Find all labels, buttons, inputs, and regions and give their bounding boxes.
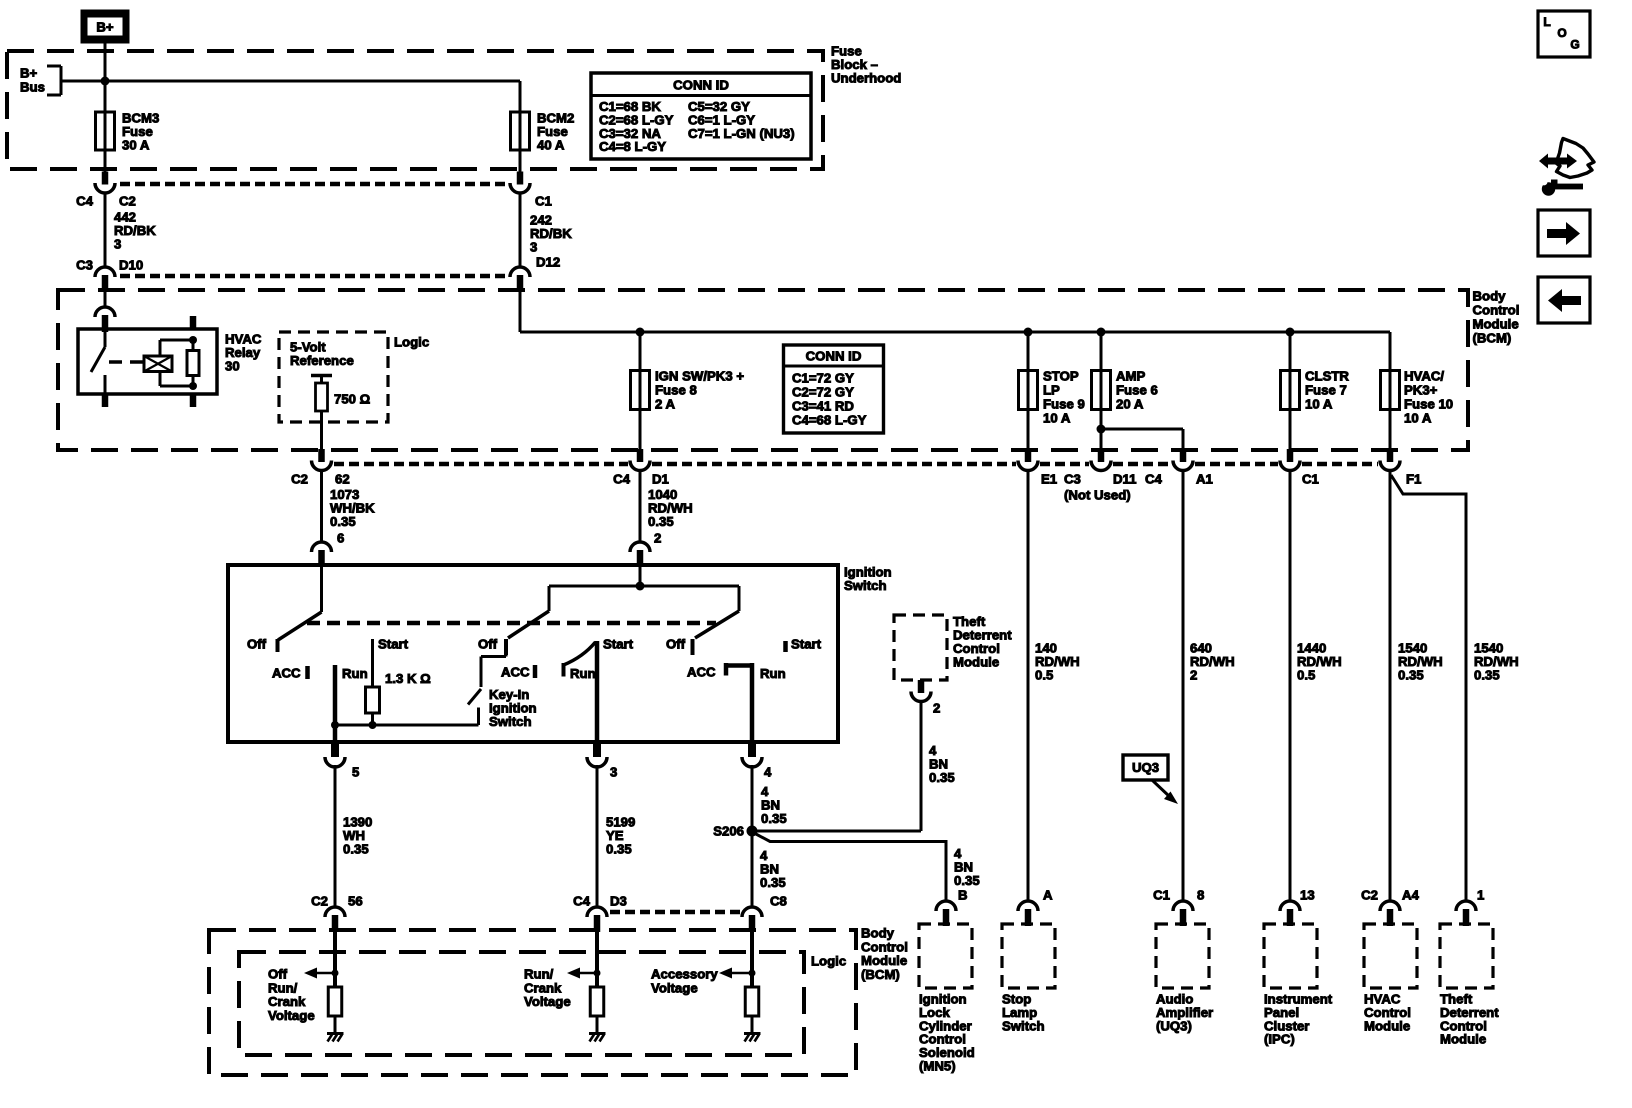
svg-text:STOP: STOP	[1043, 369, 1079, 384]
wire bus to stop fuse	[1027, 332, 1030, 371]
svg-text:40 A: 40 A	[537, 138, 565, 153]
svg-text:Crank: Crank	[524, 980, 562, 995]
ign switch acc gang run bar	[333, 665, 338, 725]
connector ign switch pin 6	[312, 542, 332, 567]
svg-text:Module: Module	[1364, 1018, 1410, 1033]
svg-text:LP: LP	[1043, 383, 1060, 398]
svg-text:1: 1	[1477, 888, 1484, 903]
node ign feed	[636, 582, 645, 591]
conn id table fuse block	[591, 73, 811, 159]
wire 1040 label	[648, 487, 693, 546]
wire 5199 label	[606, 815, 635, 857]
inline connector dotted line top	[120, 182, 506, 187]
svg-text:B: B	[958, 888, 968, 903]
svg-text:Accessory: Accessory	[651, 967, 718, 982]
off run crank voltage label	[268, 967, 315, 1023]
svg-text:D1: D1	[652, 472, 669, 487]
wire 4 BN lower label	[760, 848, 786, 890]
ign switch main gang run curve	[564, 642, 596, 665]
connector C4/D1 labels	[613, 472, 669, 487]
svg-text:IGN SW/PK3 +: IGN SW/PK3 +	[655, 369, 744, 384]
svg-text:Start: Start	[791, 637, 822, 652]
connector ign switch pin 2	[630, 542, 650, 567]
node amp branch	[1097, 425, 1106, 434]
svg-text:30 A: 30 A	[122, 138, 150, 153]
connector A1	[1173, 449, 1193, 471]
svg-text:(Not Used): (Not Used)	[1064, 488, 1131, 503]
wire 4 BN upper	[751, 765, 754, 831]
wire 1440 label	[1297, 641, 1342, 683]
svg-text:ACC: ACC	[501, 665, 530, 680]
audio amplifier box	[1156, 924, 1209, 988]
connector ign output 4	[742, 742, 762, 767]
svg-text:Module: Module	[861, 953, 907, 968]
svg-text:Run: Run	[570, 666, 596, 681]
svg-text:F1: F1	[1406, 472, 1421, 487]
svg-text:C4: C4	[76, 194, 94, 209]
ground accessory voltage	[744, 1034, 761, 1042]
connector C2/62	[312, 449, 332, 471]
wire 1390 WH	[334, 765, 337, 908]
ign switch main gang off label	[478, 637, 498, 652]
svg-text:0.35: 0.35	[761, 811, 787, 826]
ignition lock cylinder label	[919, 992, 975, 1074]
svg-text:Control: Control	[1473, 303, 1520, 318]
svg-text:Run/: Run/	[524, 967, 554, 982]
bcm bottom dotted line 6	[1302, 462, 1378, 467]
wire theft deterrent label	[929, 743, 955, 785]
svg-text:Start: Start	[378, 637, 409, 652]
icon tools	[1539, 139, 1594, 196]
node jumper resistor	[369, 721, 377, 729]
callout UQ3	[1123, 755, 1178, 804]
wire run crank voltage to ground	[596, 1016, 599, 1033]
ign switch acc gang acc contact	[272, 666, 308, 681]
wire 4 BN upper label	[761, 784, 787, 826]
logic label bottom	[811, 954, 846, 969]
resistor accessory voltage	[745, 987, 759, 1016]
wire 1540 hvac label	[1398, 641, 1443, 683]
ign switch acc2 gang pivot	[738, 586, 741, 611]
svg-text:C4: C4	[613, 472, 631, 487]
bcm bottom dotted line 5	[1195, 462, 1278, 467]
connector C2/56	[325, 907, 345, 932]
svg-text:D3: D3	[610, 894, 627, 909]
node B+ bus / BCM3	[101, 77, 110, 86]
svg-text:C4: C4	[573, 894, 591, 909]
body control module label	[1473, 289, 1520, 346]
svg-text:C2: C2	[291, 472, 308, 487]
wire S206 branch label	[954, 846, 980, 888]
svg-text:HVAC/: HVAC/	[1404, 369, 1444, 384]
svg-text:0.35: 0.35	[330, 514, 356, 529]
svg-text:Fuse 6: Fuse 6	[1116, 383, 1158, 398]
wire D12 pin down into BCM	[519, 288, 522, 332]
svg-text:Voltage: Voltage	[651, 980, 698, 995]
fuse 8 label	[655, 369, 744, 412]
svg-text:Module: Module	[1473, 317, 1519, 332]
ignition switch box	[228, 565, 838, 742]
fuse HVAC/PK3 10 10A	[1381, 370, 1400, 411]
svg-text:5: 5	[352, 765, 359, 780]
svg-text:(MN5): (MN5)	[919, 1059, 956, 1074]
wire bus to hvac fuse	[1389, 332, 1392, 371]
ign switch acc gang start label	[378, 637, 409, 652]
svg-text:A1: A1	[1196, 472, 1213, 487]
svg-text:PK3+: PK3+	[1404, 383, 1438, 398]
svg-text:Fuse 7: Fuse 7	[1305, 383, 1347, 398]
hvac relay terminal stub bottom left	[102, 394, 109, 407]
fuse BCM3 30A	[96, 111, 115, 151]
instrument panel cluster label	[1264, 992, 1333, 1047]
svg-text:0.35: 0.35	[954, 873, 980, 888]
svg-text:Fuse 9: Fuse 9	[1043, 397, 1085, 412]
node relay coil top	[189, 336, 197, 344]
theft deterrent control module top label	[953, 614, 1012, 670]
bcm bottom dotted line 1	[334, 462, 628, 467]
wire D10 pin into BCM	[104, 288, 107, 308]
connector hvac control C2/A4	[1380, 901, 1400, 926]
wire hvac fuse to F1 pin	[1389, 410, 1392, 451]
node bus stop fuse	[1024, 328, 1033, 337]
svg-text:C8: C8	[770, 894, 787, 909]
svg-text:Body: Body	[861, 926, 895, 941]
accessory voltage label	[651, 967, 718, 996]
svg-text:Fuse 10: Fuse 10	[1404, 397, 1453, 412]
svg-text:AMP: AMP	[1116, 369, 1146, 384]
connector C2/62 labels	[291, 472, 350, 487]
connector C8 label	[770, 894, 787, 909]
ground run crank voltage	[589, 1034, 606, 1042]
hvac control module box	[1364, 924, 1417, 988]
wire 1073 WH/BK	[320, 469, 323, 543]
svg-text:CONN ID: CONN ID	[806, 349, 862, 364]
svg-text:30: 30	[225, 359, 240, 374]
ign switch acc2 gang acc contact	[687, 663, 726, 680]
body control module dashed box	[58, 290, 1468, 450]
svg-text:0.35: 0.35	[929, 770, 955, 785]
svg-text:E1: E1	[1041, 472, 1057, 487]
ign switch acc2 output bar	[750, 663, 755, 742]
connector E1	[1018, 449, 1038, 471]
wire B+ bus down to BCM2 fuse	[519, 81, 522, 112]
svg-text:O: O	[1557, 26, 1566, 40]
fuse BCM3 label	[122, 111, 159, 153]
svg-text:Module: Module	[953, 655, 999, 670]
wire 640 label	[1190, 641, 1235, 683]
fuse BCM2 40A	[511, 111, 530, 151]
svg-text:ACC: ACC	[687, 665, 716, 680]
svg-text:A4: A4	[1402, 888, 1420, 903]
fuse AMP 6 20A	[1092, 370, 1111, 411]
svg-text:20 A: 20 A	[1116, 397, 1144, 412]
off run crank voltage sense arrow	[304, 968, 339, 979]
hvac relay box	[78, 329, 217, 394]
hvac relay actuating dashed link	[109, 360, 143, 364]
connector C1 bottom	[1280, 449, 1300, 471]
theft deterrent control module box bottom	[1440, 924, 1493, 988]
svg-text:10 A: 10 A	[1305, 397, 1333, 412]
ign switch main output bar	[595, 641, 600, 742]
wire amp fuse to D11 pin	[1100, 410, 1103, 451]
connector C4/D3	[587, 907, 607, 932]
wire 1073 label	[330, 487, 375, 546]
svg-text:13: 13	[1300, 888, 1315, 903]
connector F1	[1380, 449, 1400, 471]
connector ign output 5	[325, 742, 345, 767]
wire BCM internal bus	[520, 331, 1390, 334]
wire F1 branch to theft deterrent	[1391, 475, 1466, 902]
key-in ignition switch label	[489, 687, 537, 729]
svg-text:Reference: Reference	[290, 353, 354, 368]
ign switch acc2 gang off label	[666, 637, 686, 652]
wire bus to amp fuse	[1100, 332, 1103, 371]
svg-text:Body: Body	[1473, 289, 1507, 304]
hvac relay coil	[144, 356, 172, 372]
resistor off run crank voltage	[328, 987, 342, 1016]
svg-text:Run: Run	[760, 666, 786, 681]
connector ipc 13 label	[1300, 888, 1315, 903]
svg-text:C1: C1	[535, 194, 552, 209]
svg-text:D12: D12	[536, 255, 560, 270]
theft deterrent control module box top	[894, 615, 947, 680]
wire run bar output 5	[333, 725, 338, 742]
svg-text:3: 3	[610, 765, 617, 780]
hvac relay label	[225, 332, 262, 374]
connector stop lamp A label	[1043, 888, 1053, 903]
connector A1 labels	[1145, 472, 1213, 487]
svg-text:C1: C1	[1153, 888, 1170, 903]
svg-text:C4=68 L-GY: C4=68 L-GY	[792, 413, 867, 428]
connector ign output 5 label	[352, 765, 359, 780]
wire BCM2 fuse to C1 pin	[519, 150, 522, 172]
wire 442 RD/BK label	[114, 210, 156, 252]
connector C4/C2	[95, 172, 115, 194]
hvac relay terminal stub bottom right	[190, 394, 197, 407]
svg-text:4: 4	[764, 765, 772, 780]
connector C4/D1	[630, 449, 650, 471]
wire amp branch to A1	[1101, 429, 1183, 450]
connector theft deterrent 2 label	[933, 701, 940, 716]
wire clstr fuse to C1 pin	[1289, 410, 1292, 451]
svg-text:(BCM): (BCM)	[1473, 331, 1512, 346]
wire 4 BN lower	[751, 831, 754, 908]
resistor 1.3 K	[366, 687, 380, 713]
svg-text:Voltage: Voltage	[524, 994, 571, 1009]
svg-text:0.35: 0.35	[606, 842, 632, 857]
svg-text:B+: B+	[96, 20, 114, 35]
connector C1 label	[535, 194, 552, 209]
hvac control module label	[1364, 992, 1411, 1034]
instrument panel cluster box	[1264, 924, 1317, 988]
ign switch main gang acc contact	[501, 665, 535, 680]
connector C1 bottom label	[1302, 472, 1319, 487]
icon arrow left box	[1538, 277, 1590, 323]
connector theft deterrent 1 label	[1477, 888, 1484, 903]
wire bus to ign fuse	[639, 332, 642, 371]
svg-text:UQ3: UQ3	[1132, 760, 1159, 775]
svg-text:8: 8	[1197, 888, 1204, 903]
node bus clstr fuse	[1286, 328, 1295, 337]
ign switch acc gang off label	[247, 637, 267, 652]
svg-text:G: G	[1570, 38, 1579, 52]
ign switch main gang wiper	[506, 611, 549, 655]
wire 1540 theft label	[1474, 641, 1519, 683]
node bus amp fuse	[1097, 328, 1106, 337]
svg-text:(IPC): (IPC)	[1264, 1032, 1295, 1047]
wire 1540 RD/WH to hvac	[1389, 469, 1392, 902]
connector C3/D10 labels	[76, 258, 143, 273]
stop lamp switch label	[1002, 992, 1045, 1034]
B+ Bus terminal bracket	[20, 66, 61, 96]
conn id table bcm	[784, 345, 884, 433]
connector C3/D10	[95, 267, 115, 292]
connector C4/D3 labels	[573, 894, 627, 909]
ign switch acc gang wiper	[278, 612, 322, 652]
svg-text:62: 62	[335, 472, 350, 487]
wire ign fuse to C4 pin	[639, 410, 642, 451]
splice S206	[713, 824, 757, 839]
fuse CLSTR 7 10A	[1281, 370, 1300, 411]
wire ign feed into box	[639, 567, 642, 586]
svg-text:6: 6	[337, 531, 344, 546]
resistor run crank voltage	[590, 987, 604, 1016]
svg-text:C2: C2	[119, 194, 136, 209]
svg-text:0.5: 0.5	[1297, 668, 1315, 683]
ign switch acc2 gang wiper	[693, 611, 740, 655]
svg-text:C4=8 L-GY: C4=8 L-GY	[599, 139, 666, 154]
fuse BCM2 label	[537, 111, 574, 153]
svg-text:D11: D11	[1113, 472, 1136, 487]
svg-text:Off: Off	[666, 637, 686, 652]
wire S206 to theft deterrent	[752, 830, 921, 833]
svg-text:2: 2	[1190, 668, 1197, 683]
node jumper run bar	[331, 721, 339, 729]
bcm bottom dotted line 3	[1040, 462, 1089, 467]
svg-text:0.35: 0.35	[760, 875, 786, 890]
wire stop fuse to E1 pin	[1027, 410, 1030, 451]
svg-text:0.35: 0.35	[1398, 668, 1424, 683]
fuse block underhood label	[831, 44, 901, 86]
svg-text:0.35: 0.35	[343, 842, 369, 857]
svg-text:C1=72 GY: C1=72 GY	[792, 371, 854, 386]
connector C4/C2 labels	[76, 194, 136, 209]
svg-text:C2: C2	[311, 894, 328, 909]
connector theft deterrent 1	[1456, 901, 1476, 926]
ign switch acc2 gang start contact	[786, 637, 822, 653]
wire off run crank voltage to ground	[334, 1016, 337, 1033]
resistor 1.3 K label	[385, 671, 431, 686]
svg-text:Off: Off	[268, 967, 288, 982]
ign switch start contact wire	[371, 639, 374, 687]
connector stop lamp A	[1018, 901, 1038, 926]
connector C2/56 labels	[311, 894, 363, 909]
bcm logic dotted line	[610, 910, 740, 915]
svg-text:Start: Start	[603, 637, 634, 652]
connector theft deterrent 2	[911, 680, 931, 702]
five volt reference dashed box	[279, 332, 388, 422]
svg-text:Fuse 8: Fuse 8	[655, 383, 697, 398]
connector audio amplifier labels	[1153, 888, 1204, 903]
svg-text:56: 56	[348, 894, 363, 909]
icon LOG box	[1538, 11, 1590, 57]
fuse 9 label	[1043, 369, 1085, 426]
wire accessory voltage to ground	[751, 1016, 754, 1033]
ignition lock cylinder control solenoid box	[919, 924, 972, 988]
svg-text:Logic: Logic	[394, 335, 429, 350]
icon arrow right box	[1538, 210, 1590, 256]
svg-text:10 A: 10 A	[1404, 411, 1432, 426]
svg-text:1.3 K Ω: 1.3 K Ω	[385, 671, 431, 686]
theft deterrent bottom label	[1440, 992, 1499, 1047]
ign switch main gang start label	[603, 637, 634, 652]
svg-text:750 Ω: 750 Ω	[334, 392, 371, 407]
svg-text:Voltage: Voltage	[268, 1008, 315, 1023]
hvac relay terminal 87 stub top	[190, 316, 197, 329]
ign switch jumper wire	[335, 708, 479, 726]
connector hvac relay socket	[95, 307, 115, 332]
key-in ignition switch	[468, 655, 506, 705]
ign switch acc2 gang run label	[760, 666, 786, 681]
svg-text:Crank: Crank	[268, 994, 306, 1009]
connector D12 label	[536, 255, 560, 270]
bcm bottom dotted line 2	[652, 462, 1016, 467]
wire 1440 RD/WH	[1289, 469, 1292, 902]
wire 1.3 K to jumper	[371, 713, 374, 725]
hvac relay coil wires	[160, 340, 193, 386]
wire B+ to BCM3 fuse	[104, 43, 107, 112]
wire theft deterrent 4 BN	[920, 700, 923, 831]
svg-text:C1: C1	[1302, 472, 1319, 487]
svg-text:CLSTR: CLSTR	[1305, 369, 1349, 384]
wire 242 RD/BK	[519, 192, 522, 269]
ign switch main gang run contact	[564, 663, 596, 681]
ign switch pivot rail	[549, 585, 739, 588]
svg-text:S206: S206	[713, 824, 744, 839]
connector solenoid B label	[958, 888, 968, 903]
wire off run crank voltage sense	[333, 928, 337, 987]
svg-text:C3: C3	[76, 258, 93, 273]
ign switch main gang pivot	[548, 586, 551, 611]
svg-text:10 A: 10 A	[1043, 411, 1071, 426]
svg-text:Module: Module	[1440, 1032, 1486, 1047]
svg-text:(UQ3): (UQ3)	[1156, 1018, 1192, 1033]
svg-text:C2=72 GY: C2=72 GY	[792, 385, 854, 400]
connector ipc 13	[1280, 901, 1300, 926]
inline connector dotted line lower	[120, 274, 506, 279]
wire 140 label	[1035, 641, 1080, 683]
svg-text:Control: Control	[861, 939, 908, 954]
fuse IGN SW/PK3 8 2A	[631, 370, 650, 411]
svg-text:B+: B+	[20, 66, 38, 81]
run crank voltage label	[524, 967, 571, 1010]
wire 1390 label	[343, 815, 372, 857]
svg-text:C7=1 L-GN (NU3): C7=1 L-GN (NU3)	[688, 126, 795, 141]
ignition switch label	[844, 565, 892, 594]
svg-text:L: L	[1543, 15, 1550, 29]
svg-text:3: 3	[530, 240, 537, 255]
svg-text:A: A	[1043, 888, 1053, 903]
svg-text:C3=41 RD: C3=41 RD	[792, 399, 854, 414]
wire 140 RD/WH	[1027, 469, 1030, 902]
wire 5199 YE	[596, 765, 599, 908]
bcm bottom dashed box	[209, 930, 856, 1075]
wire 640 RD/WH	[1182, 469, 1185, 902]
wire bus to clstr fuse	[1289, 332, 1292, 371]
wire run crank voltage sense	[595, 928, 599, 987]
svg-text:Off: Off	[478, 637, 498, 652]
connector C8	[742, 907, 762, 932]
